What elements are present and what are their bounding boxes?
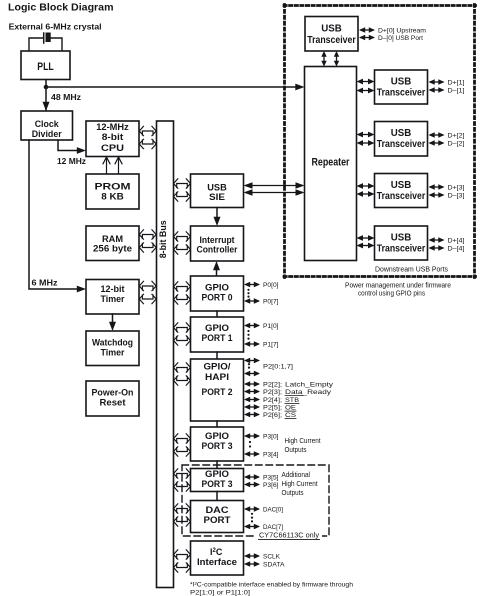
box USB transceiver 1: [375, 70, 428, 104]
box USB SIE: [191, 174, 244, 208]
svg-text:External 6-MHz crystal: External 6-MHz crystal: [9, 22, 102, 31]
node dots P1: [247, 330, 249, 340]
svg-text:Reset: Reset: [100, 398, 126, 408]
pin arrow P3[4]: [244, 451, 260, 457]
svg-text:D+[2]: D+[2]: [448, 132, 465, 139]
svg-text:SDATA: SDATA: [263, 562, 285, 569]
dashed box CY7C66113C only: [182, 465, 329, 536]
svg-text:USB: USB: [321, 24, 342, 35]
bus tap I2C interface: [174, 550, 191, 572]
svg-text:6 MHz: 6 MHz: [32, 279, 58, 288]
bus tap GPIO port 0: [174, 282, 191, 304]
wire SIE to interrupt controller: [216, 208, 218, 219]
svg-text:USB: USB: [391, 128, 412, 139]
label CY7C66113C only: [256, 531, 322, 540]
box GPIO port 0: [191, 276, 244, 311]
svg-text:Interrupt: Interrupt: [200, 235, 235, 245]
svg-text:P2[1:0] or P1[1:0]: P2[1:0] or P1[1:0]: [190, 590, 250, 596]
svg-text:GPIO: GPIO: [205, 283, 229, 293]
svg-text:P3[4]: P3[4]: [263, 452, 279, 459]
svg-text:12 MHz: 12 MHz: [57, 157, 86, 166]
box GPIO HAPI port 2: [191, 359, 244, 421]
pin arrow DAC[7]: [244, 524, 260, 530]
box USB transceiver upstream U0: [305, 17, 358, 52]
bus tap CPU: [139, 126, 156, 148]
box GPIO port 1: [191, 317, 244, 352]
svg-text:USB: USB: [207, 183, 227, 193]
svg-text:CS: CS: [285, 412, 297, 419]
svg-text:8-bit: 8-bit: [102, 132, 124, 142]
svg-text:GPIO: GPIO: [205, 469, 229, 479]
node dots P3: [249, 441, 251, 448]
svg-text:High Current: High Current: [282, 481, 318, 488]
pin arrow D-[3]: [429, 192, 445, 198]
box RAM 256 byte: [86, 226, 139, 261]
pin arrow P2[3] Data_Ready: [244, 389, 260, 395]
svg-text:Data_Ready: Data_Ready: [285, 389, 332, 396]
wire PROM to CPU open arrows: [103, 157, 122, 174]
box CPU 12-MHz 8-bit: [86, 121, 139, 157]
svg-text:DAC[7]: DAC[7]: [263, 524, 283, 531]
wire 6MHz clock to timer: [29, 140, 78, 289]
box repeater: [305, 67, 357, 261]
svg-text:HAPI: HAPI: [205, 372, 229, 382]
pin arrow D-[1]: [429, 87, 445, 93]
svg-text:P1[7]: P1[7]: [263, 342, 279, 349]
bus tap GPIO HAPI port 2: [174, 363, 191, 385]
svg-text:High Current: High Current: [285, 438, 321, 445]
svg-text:PORT 3: PORT 3: [202, 479, 233, 489]
svg-text:D–[3]: D–[3]: [448, 192, 465, 199]
svg-text:Additional: Additional: [282, 472, 311, 479]
bus tap GPIO port 3 additional: [174, 469, 191, 491]
svg-text:Transceiver: Transceiver: [377, 191, 426, 202]
svg-text:12-MHz: 12-MHz: [96, 122, 129, 132]
svg-text:P0[0]: P0[0]: [263, 282, 279, 289]
svg-text:PROM: PROM: [95, 182, 131, 192]
svg-text:Logic Block Diagram: Logic Block Diagram: [8, 3, 114, 14]
pin arrow P1[7]: [244, 341, 260, 347]
pin arrow P2[6] CS: [244, 412, 260, 418]
svg-text:GPIO/: GPIO/: [204, 362, 232, 372]
svg-text:SIE: SIE: [209, 192, 225, 202]
svg-text:Divider: Divider: [32, 129, 62, 139]
svg-text:8 KB: 8 KB: [101, 191, 124, 201]
wire port3b to DAC: [216, 492, 218, 501]
svg-text:PORT 3: PORT 3: [202, 441, 233, 451]
box GPIO port 3: [191, 427, 244, 461]
wire port1 port2: [216, 352, 218, 359]
svg-text:P2[6];: P2[6];: [263, 412, 282, 419]
svg-text:12-bit: 12-bit: [101, 284, 125, 294]
pin arrow D-[2]: [429, 140, 445, 146]
wire repeater T4 pair: [357, 235, 375, 241]
pin arrow P2[5] OE: [244, 404, 260, 410]
svg-text:8-bit Bus: 8-bit Bus: [158, 220, 168, 258]
svg-text:Interface: Interface: [197, 557, 237, 567]
svg-text:P3[0]: P3[0]: [263, 434, 279, 441]
wire SIE repeater pair: [244, 182, 305, 196]
pin arrow P2 upper: [244, 358, 260, 364]
svg-text:D–[2]: D–[2]: [448, 140, 465, 147]
box interrupt controller: [191, 226, 244, 261]
svg-text:SCLK: SCLK: [263, 554, 281, 561]
svg-text:D+[3]: D+[3]: [448, 184, 465, 191]
svg-text:D+[4]: D+[4]: [448, 237, 465, 244]
svg-text:P2[0:1,7]: P2[0:1,7]: [263, 364, 293, 371]
svg-text:USB: USB: [391, 180, 412, 191]
wire U0 repeater vertical pair: [321, 51, 326, 67]
node dots P0: [247, 289, 249, 298]
svg-text:GPIO: GPIO: [205, 431, 229, 441]
box USB transceiver 2: [375, 122, 428, 157]
box I2C interface: [191, 541, 244, 575]
svg-text:control using GPIO pins: control using GPIO pins: [358, 291, 425, 298]
svg-text:OE: OE: [285, 405, 297, 412]
svg-text:Timer: Timer: [101, 348, 125, 358]
svg-text:CY7C66113C only: CY7C66113C only: [259, 533, 320, 540]
svg-text:48 MHz: 48 MHz: [51, 93, 81, 102]
wire repeater T3 pair: [357, 183, 375, 189]
box PROM 8 KB: [86, 174, 139, 209]
pin arrow P2[2] Latch_Empty: [244, 381, 260, 387]
svg-text:Timer: Timer: [101, 294, 125, 304]
box USB transceiver 3: [375, 174, 428, 208]
pin arrow D+[0] upstream: [359, 27, 375, 33]
svg-text:I2C: I2C: [210, 547, 223, 557]
bus tap USB SIE: [174, 179, 191, 201]
svg-text:Transceiver: Transceiver: [377, 87, 426, 98]
pin arrow D+[2]: [429, 132, 445, 138]
svg-text:P3[5]: P3[5]: [263, 475, 279, 482]
svg-text:GPIO: GPIO: [205, 323, 229, 333]
pin arrow P3[0]: [244, 433, 260, 439]
svg-text:PORT 0: PORT 0: [202, 293, 233, 303]
svg-text:Watchdog: Watchdog: [92, 338, 133, 348]
wire 12MHz clock to CPU: [58, 140, 78, 151]
svg-text:P2[5];: P2[5];: [263, 405, 282, 412]
node dots P2: [248, 363, 250, 369]
pin arrow SCLK: [244, 553, 260, 559]
wire port0 port1: [216, 311, 218, 317]
svg-text:USB: USB: [391, 77, 412, 88]
wire PLL to Clock Divider: [45, 80, 47, 111]
box Clock Divider: [21, 111, 73, 140]
svg-text:CPU: CPU: [101, 143, 124, 153]
svg-text:RAM: RAM: [102, 234, 123, 244]
svg-text:D–[1]: D–[1]: [448, 87, 465, 94]
svg-text:256 byte: 256 byte: [93, 244, 132, 254]
svg-text:Transceiver: Transceiver: [307, 35, 356, 46]
pin arrow DAC[0]: [244, 506, 260, 512]
bus 8-bit Bus: [157, 121, 174, 588]
wire GPIO0 to interrupt controller: [216, 269, 218, 276]
svg-text:Downstream USB Ports: Downstream USB Ports: [375, 267, 448, 274]
svg-text:Clock: Clock: [35, 119, 60, 129]
bus tap timer: [139, 281, 156, 303]
node junction 48MHz: [44, 85, 49, 90]
svg-text:D–[4]: D–[4]: [448, 245, 465, 252]
svg-text:*I²C-compatible interface enab: *I²C-compatible interface enabled by fir…: [190, 582, 353, 589]
svg-text:P1[0]: P1[0]: [263, 323, 279, 330]
svg-text:P2[2];: P2[2];: [263, 382, 282, 389]
box PLL: [21, 51, 70, 80]
svg-text:Repeater: Repeater: [312, 157, 351, 169]
svg-text:Power-On: Power-On: [92, 388, 134, 398]
node dots DAC: [251, 513, 253, 523]
svg-text:DAC: DAC: [206, 505, 230, 515]
wire 48MHz to Repeater: [46, 86, 296, 88]
wire repeater T1 pair: [357, 79, 375, 85]
pin arrow P2 lower: [244, 371, 260, 377]
pin arrow D+[3]: [429, 184, 445, 190]
svg-text:Controller: Controller: [197, 245, 238, 255]
pin arrow D+[1]: [429, 79, 445, 85]
box 12-bit Timer: [86, 280, 139, 315]
svg-text:Transceiver: Transceiver: [377, 139, 426, 150]
pin arrow P1[0]: [244, 323, 260, 329]
svg-text:P2[4];: P2[4];: [263, 397, 282, 404]
wire timer to watchdog: [112, 314, 114, 323]
pin arrow P0[0]: [244, 282, 260, 288]
pin arrow P3[5]: [244, 474, 260, 480]
box GPIO port 3 additional: [191, 469, 244, 492]
svg-text:PLL: PLL: [37, 61, 54, 73]
bus tap GPIO port 1: [174, 323, 191, 345]
svg-text:Power management under firmwar: Power management under firmware: [345, 283, 451, 290]
svg-text:STB: STB: [285, 397, 299, 404]
box Watchdog Timer: [86, 331, 139, 366]
svg-text:DAC[0]: DAC[0]: [263, 507, 283, 514]
pin arrow SDATA: [244, 561, 260, 567]
svg-text:P3[6]: P3[6]: [263, 482, 279, 489]
wire port2 port3: [216, 421, 218, 427]
svg-text:D+[0] Upstream: D+[0] Upstream: [378, 27, 426, 34]
svg-text:P2[3];: P2[3];: [263, 389, 282, 396]
pin arrow P3[6]: [244, 482, 260, 488]
pin arrow P2[4] STB: [244, 397, 260, 403]
bus tap DAC port: [174, 504, 191, 526]
svg-text:Outputs: Outputs: [285, 447, 307, 454]
svg-text:PORT 1: PORT 1: [202, 333, 233, 343]
box USB transceiver 4: [375, 226, 428, 260]
pin arrow D-[0] USB port: [359, 35, 375, 41]
svg-text:Latch_Empty: Latch_Empty: [285, 382, 334, 389]
box DAC port: [191, 501, 244, 533]
svg-text:PORT: PORT: [204, 515, 232, 525]
dotted box hub section: [284, 5, 476, 278]
wire repeater T2 pair: [357, 132, 375, 138]
svg-text:PORT 2: PORT 2: [202, 387, 233, 397]
svg-text:D+[1]: D+[1]: [448, 79, 465, 86]
svg-text:Outputs: Outputs: [282, 490, 304, 497]
box Power-On Reset: [86, 381, 139, 416]
crystal Y1: [44, 33, 51, 44]
wire port3 to port3b: [216, 461, 218, 469]
svg-text:Transceiver: Transceiver: [377, 243, 426, 254]
svg-text:D–[0] USB Port: D–[0] USB Port: [378, 35, 423, 42]
pin arrow D+[4]: [429, 237, 445, 243]
pin arrow D-[4]: [429, 245, 445, 251]
bus tap interrupt controller: [174, 232, 191, 254]
pin arrow P0[7]: [244, 298, 260, 304]
bus tap GPIO port 3: [174, 434, 191, 456]
svg-text:USB: USB: [391, 233, 412, 244]
bus tap RAM: [139, 230, 156, 252]
svg-text:P0[7]: P0[7]: [263, 299, 279, 306]
wire crystal loop: [29, 38, 62, 51]
